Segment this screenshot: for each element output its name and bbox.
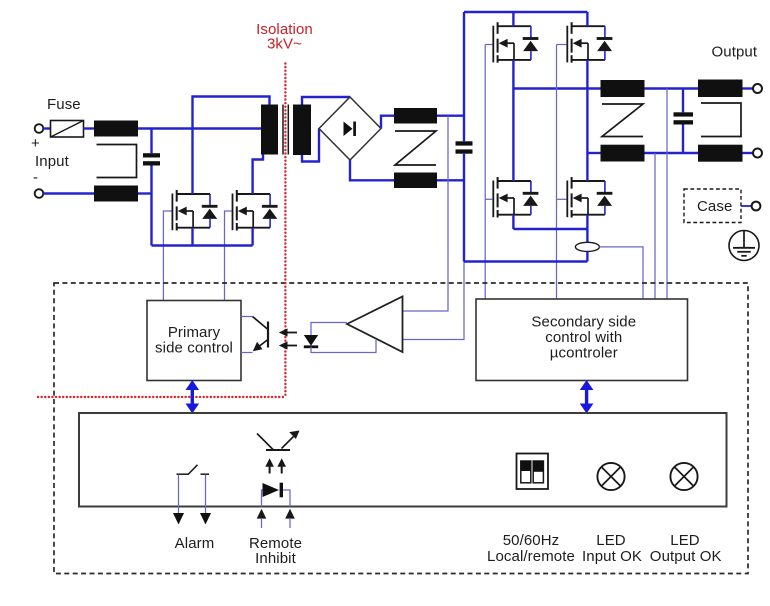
wire bottom bus <box>464 260 587 262</box>
label Secondary side control with ucontroler <box>531 314 636 362</box>
wire case to terminal <box>741 205 751 207</box>
output choke L4 top winding <box>698 80 743 98</box>
sense wire output - <box>654 153 656 299</box>
wire secondary bottom to bridge <box>302 129 319 162</box>
wire L2 top to DC bus <box>437 114 464 116</box>
wire + rail to C1 <box>150 129 152 154</box>
sense wire DC+ to amplifier <box>403 116 448 311</box>
alarm arrow left <box>173 513 184 525</box>
remote light arrow left <box>265 458 274 473</box>
output terminal + <box>753 84 762 93</box>
svg-text:50/60Hz: 50/60Hz <box>503 532 560 549</box>
output choke L4 bottom winding <box>698 145 743 162</box>
wire alarm left <box>178 475 180 514</box>
wire H-bridge top bus <box>464 11 587 13</box>
wire output - rail <box>645 152 699 154</box>
wire M2 drain <box>586 12 588 26</box>
opto light arrow upper <box>279 328 297 336</box>
remote inhibit LED <box>263 483 282 498</box>
svg-text:side control: side control <box>155 340 233 357</box>
svg-text:Local/remote: Local/remote <box>487 548 575 565</box>
bridge diode <box>344 122 355 137</box>
output choke L3 bottom winding <box>601 145 645 162</box>
wire opto emitter to primary control <box>241 352 253 354</box>
wire bridge + output <box>381 116 394 129</box>
wire right leg M2-M4 <box>586 60 588 181</box>
sense wire DC- to amplifier <box>403 262 464 340</box>
protective earth ground symbol <box>729 231 759 261</box>
transistor M3 <box>493 177 538 218</box>
alarm arrow right <box>200 513 211 525</box>
input choke winding bottom <box>94 186 138 202</box>
isolation barrier red dotted vertical <box>284 64 286 398</box>
fuse F <box>51 121 84 138</box>
svg-text:3kV~: 3kV~ <box>267 36 302 53</box>
wire source bus M3-M4 <box>513 228 587 230</box>
wire alarm right <box>205 475 207 514</box>
wire fuse to choke <box>84 127 95 129</box>
wire M4 source to current sensor <box>586 215 588 243</box>
label Primary side control <box>155 324 233 357</box>
transistor Q2 <box>233 190 278 231</box>
wire secondary top to bridge <box>302 97 350 105</box>
wire output + rail <box>645 87 699 89</box>
output terminal - <box>753 149 762 158</box>
outer dashed control boundary box <box>54 283 748 574</box>
transformer T1 core <box>283 105 288 155</box>
DIP switch 50/60Hz <box>517 454 549 490</box>
wire remote LED anode <box>262 490 263 507</box>
wire Q2 drain to transformer primary bottom <box>253 154 263 195</box>
svg-text:Case: Case <box>697 198 732 215</box>
remote light arrow right <box>277 458 286 473</box>
capacitor C1 bars <box>143 153 160 165</box>
wire gate bus left <box>485 45 492 300</box>
current sensor ellipse <box>575 242 599 251</box>
wire gate bus right <box>557 45 567 300</box>
capacitor C2 bars <box>456 141 473 153</box>
bridge rectifier diamond <box>319 97 381 160</box>
wire terminal+ to fuse <box>43 127 50 129</box>
opto light arrow lower <box>279 341 297 349</box>
wire DC bus upper <box>463 12 465 141</box>
svg-text:+: + <box>31 135 40 152</box>
svg-text:Input OK: Input OK <box>582 548 642 565</box>
remote input arrow left <box>257 509 267 528</box>
svg-text:Output: Output <box>712 44 758 61</box>
label 50/60Hz Local/remote <box>487 532 575 565</box>
inductor L2 top winding <box>394 108 437 124</box>
wire to output terminal + <box>743 87 754 89</box>
LED input OK symbol <box>597 463 624 490</box>
svg-text:-: - <box>33 169 38 186</box>
wire primary source bus <box>152 244 253 246</box>
secondary side control box U2 <box>476 299 688 381</box>
isolation barrier red dotted horizontal <box>38 396 285 398</box>
sense wire current sensor to secondary control <box>599 247 643 299</box>
inductor L2 bottom winding <box>394 173 437 189</box>
wire Q2 gate to primary control <box>225 211 232 301</box>
label Remote Inhibit <box>249 535 302 567</box>
output choke L3 top winding <box>601 80 645 97</box>
svg-text:LED: LED <box>670 532 700 549</box>
wire Q1 gate to primary control <box>163 211 171 301</box>
inductor L2 core Z <box>395 131 436 165</box>
wire L2 bottom to DC bus <box>437 179 464 181</box>
wire LED anode to amplifier output <box>311 323 347 336</box>
remote input arrow right <box>285 509 295 528</box>
wire C1 to primary ground bus <box>150 166 152 246</box>
primary side control box U1 <box>147 301 241 381</box>
output choke L3 core Z <box>602 104 643 137</box>
label LED Input OK <box>582 532 642 565</box>
transformer T1 primary winding <box>261 105 278 155</box>
transistor M1 <box>493 22 538 63</box>
wire right midpoint to output choke bottom <box>587 152 600 154</box>
input terminal - <box>35 189 44 198</box>
transistor M4 <box>567 177 612 218</box>
input choke core bracket <box>97 145 137 178</box>
blue data arrow secondary <box>580 380 594 414</box>
optocoupler LED <box>304 335 318 347</box>
transistor M2 <box>567 22 612 63</box>
svg-text:µcontroler: µcontroler <box>550 345 618 362</box>
output capacitor C3 <box>674 89 694 154</box>
svg-text:Output OK: Output OK <box>650 548 722 565</box>
wire DC bus lower <box>463 154 465 262</box>
wire bridge - output <box>350 160 394 180</box>
svg-text:Inhibit: Inhibit <box>255 550 296 567</box>
transistor Q1 <box>172 190 217 231</box>
svg-text:control with: control with <box>545 329 622 346</box>
wire remote LED cathode <box>283 490 290 507</box>
LED output OK symbol <box>670 463 697 490</box>
case dashed box <box>684 189 741 223</box>
transformer T1 secondary winding <box>293 105 311 156</box>
label LED Output OK <box>650 532 722 565</box>
remote phototransistor <box>257 431 300 451</box>
wire - rail to cap node <box>138 192 152 194</box>
wire M3 source <box>512 215 514 229</box>
wire opto collector to primary control <box>241 316 253 318</box>
wire left leg M1-M3 <box>512 60 514 181</box>
svg-text:Input: Input <box>35 153 70 170</box>
input choke winding top <box>94 121 138 137</box>
input terminal + <box>35 124 44 133</box>
wire terminal- to choke <box>43 192 94 194</box>
wire + rail to transformer <box>138 127 261 129</box>
wire Q1 drain to transformer primary top <box>193 97 270 195</box>
wire M1 drain <box>512 12 514 26</box>
wire to output terminal - <box>743 152 754 154</box>
output choke L4 core bracket <box>701 103 741 137</box>
wire current sensor to bottom bus <box>586 252 588 262</box>
label Isolation 3kV~ <box>256 21 313 53</box>
optocoupler phototransistor <box>253 317 269 352</box>
svg-text:Primary: Primary <box>168 324 221 341</box>
wire LED cathode to amplifier <box>311 340 376 353</box>
svg-text:Alarm: Alarm <box>175 535 215 552</box>
amplifier triangle <box>347 297 403 353</box>
svg-text:LED: LED <box>596 532 626 549</box>
sense wire output + <box>666 89 668 300</box>
svg-text:Secondary side: Secondary side <box>531 314 636 331</box>
wire Q1 source down <box>191 228 193 246</box>
alarm switch <box>177 465 210 474</box>
blue data arrow primary <box>186 380 200 414</box>
case terminal <box>752 202 761 211</box>
interface panel box <box>79 413 727 507</box>
wire left midpoint to output choke top <box>513 87 600 89</box>
wire Q2 source down <box>251 228 253 246</box>
svg-text:Fuse: Fuse <box>47 96 81 113</box>
